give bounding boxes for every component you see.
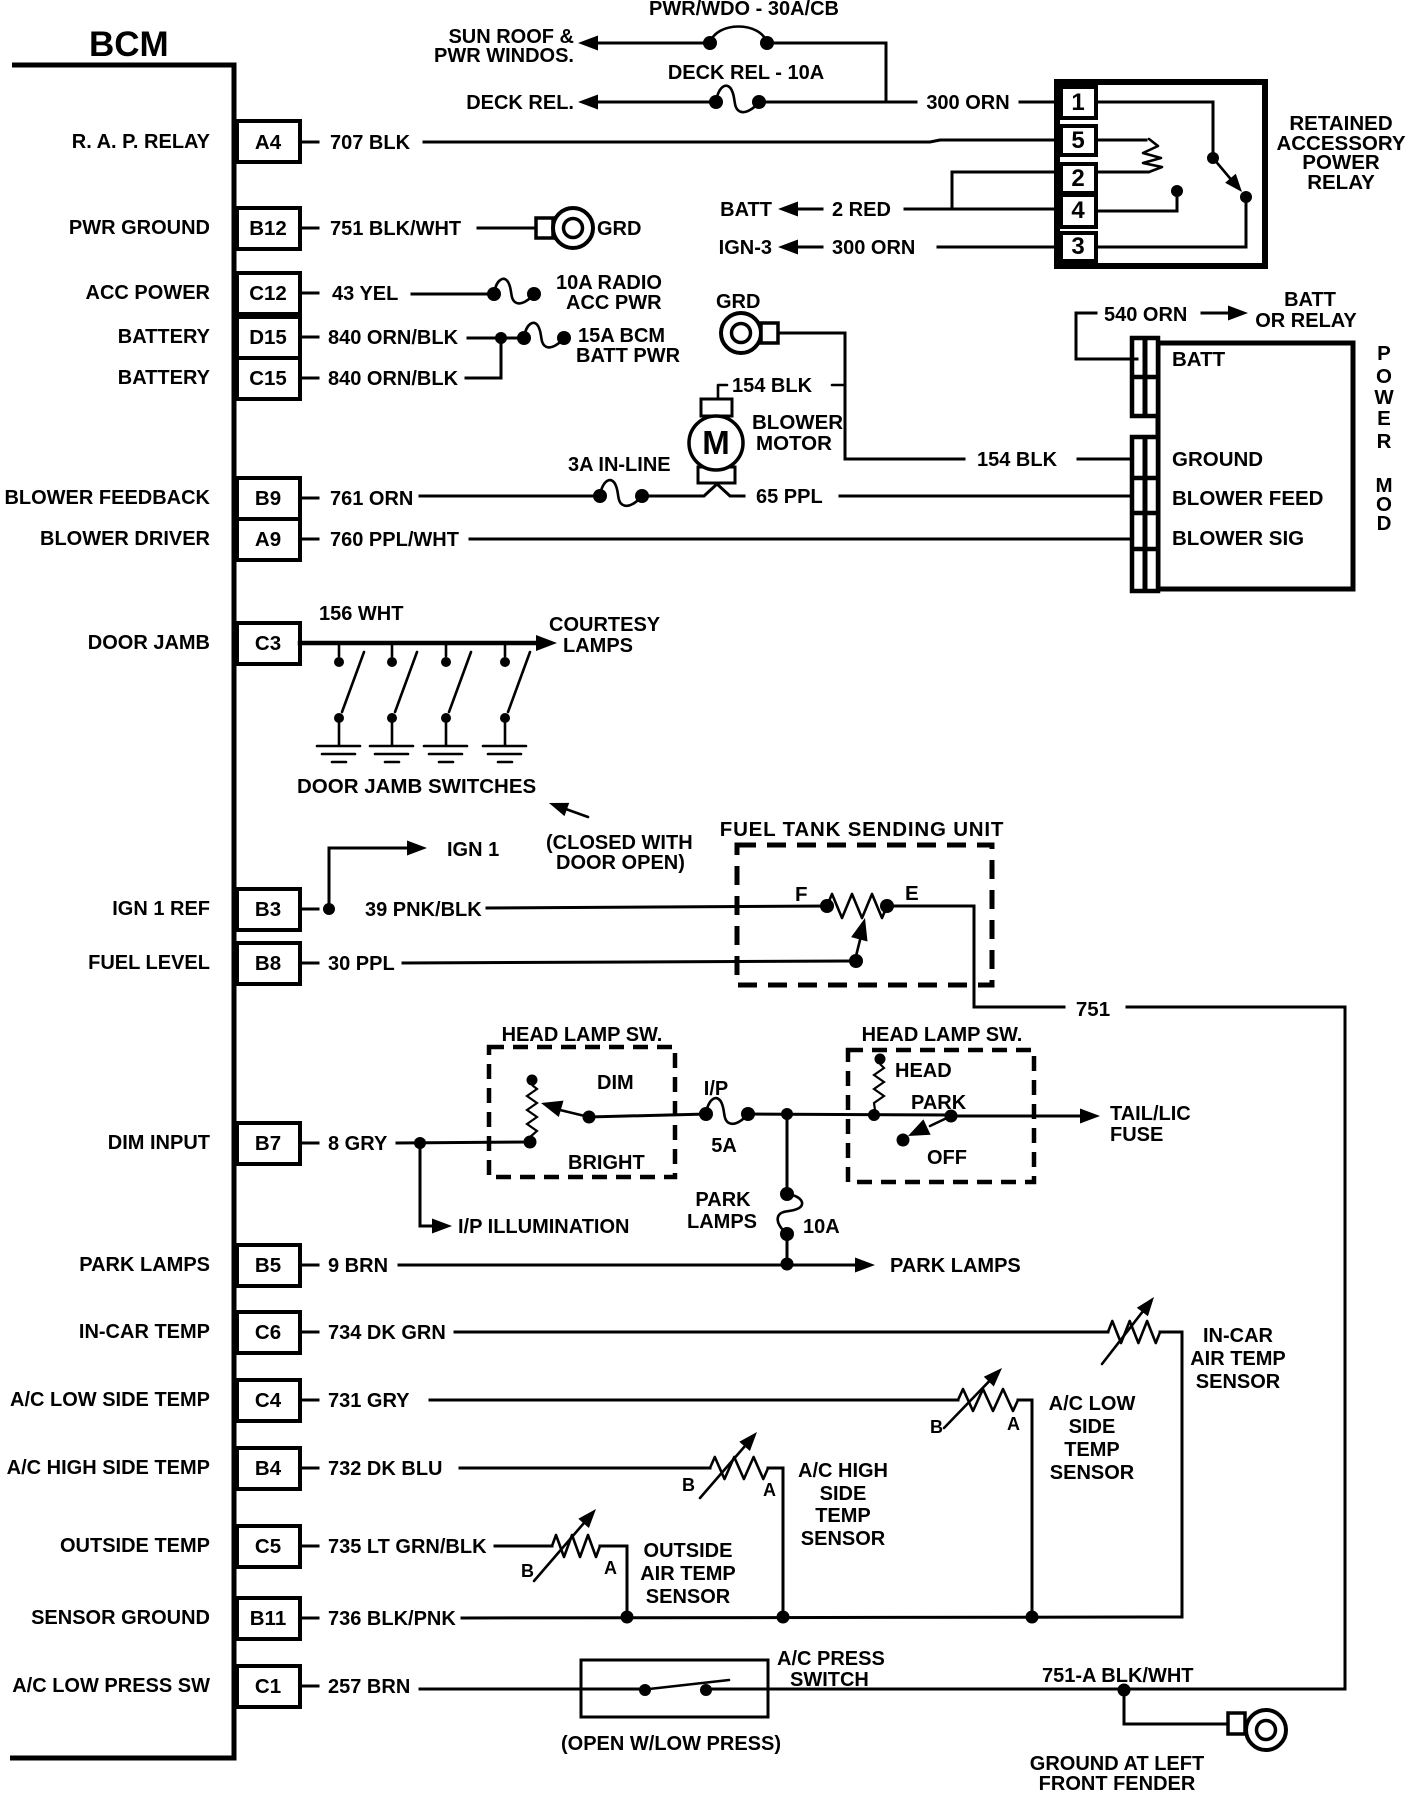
relay pin 4	[1061, 195, 1096, 227]
svg-text:5A: 5A	[711, 1135, 737, 1157]
wire 154 BLK to power module GROUND	[845, 458, 1137, 461]
head rheostat top dot	[875, 1054, 886, 1065]
power module pin labels	[1172, 348, 1323, 550]
svg-text:DIM: DIM	[597, 1072, 634, 1094]
connector pin B9 (BLOWER FEEDBACK)	[4, 478, 318, 519]
label POWER MOD (vertical)	[1374, 342, 1394, 535]
svg-text:734 DK GRN: 734 DK GRN	[328, 1322, 446, 1344]
label BATT OR RELAY	[1255, 289, 1357, 332]
arrow to door jamb switches note	[549, 803, 588, 817]
junction on 39 PNK/BLK at B3	[323, 903, 335, 915]
junction D15/C15	[495, 332, 507, 344]
head position rheostat	[874, 1064, 884, 1110]
connector pin D15 (BATTERY)	[118, 317, 318, 358]
svg-text:B8: B8	[255, 952, 281, 975]
connector pin C12 (ACC POWER)	[86, 273, 318, 314]
svg-text:4: 4	[1071, 197, 1085, 224]
arrow to IGN-3	[778, 240, 822, 255]
svg-text:731 GRY: 731 GRY	[328, 1390, 410, 1412]
label COURTESY LAMPS	[549, 614, 661, 657]
arrow 540 ORN to BATT OR RELAY	[1202, 306, 1248, 321]
a/c high side temp sensor resistor	[700, 1432, 768, 1498]
junction sensor ground (outside)	[621, 1611, 634, 1624]
svg-text:AIR TEMP: AIR TEMP	[1190, 1348, 1286, 1370]
svg-text:SENSOR: SENSOR	[1050, 1462, 1135, 1484]
blower motor top terminal + 154 BLK label leader	[718, 385, 845, 400]
relay contact (pin 3)	[1240, 191, 1252, 203]
svg-text:BLOWER: BLOWER	[752, 411, 843, 434]
svg-text:IGN-3: IGN-3	[719, 237, 772, 259]
wire dimmer to I/P fuse	[589, 1114, 706, 1117]
svg-text:300 ORN: 300 ORN	[926, 92, 1009, 114]
relay switch common contact	[1207, 152, 1219, 164]
label BLOWER MOTOR	[752, 411, 843, 455]
svg-text:OUTSIDE: OUTSIDE	[644, 1540, 733, 1562]
wire 731 GRY to a/c low sensor	[430, 1399, 958, 1402]
svg-text:154 BLK: 154 BLK	[977, 449, 1058, 471]
connector pin A4 (R. A. P. RELAY)	[72, 121, 318, 162]
svg-text:HEAD LAMP SW.: HEAD LAMP SW.	[862, 1024, 1023, 1046]
wire fuse to 9 BRN wire	[786, 1234, 789, 1264]
svg-text:BLOWER FEED: BLOWER FEED	[1172, 487, 1323, 510]
svg-text:DIM INPUT: DIM INPUT	[108, 1132, 210, 1154]
junction to park lamps fuse	[781, 1108, 793, 1120]
wire to I/P ILLUMINATION with arrow	[420, 1143, 452, 1234]
wire 39 PNK/BLK to fuel sender F	[487, 906, 827, 908]
svg-text:AIR TEMP: AIR TEMP	[640, 1563, 736, 1585]
power module connector (ground/blower)	[1132, 437, 1158, 591]
wire 761 ORN to 3A in-line fuse	[420, 495, 600, 498]
svg-text:A/C LOW SIDE TEMP: A/C LOW SIDE TEMP	[10, 1389, 210, 1411]
svg-text:A/C PRESS: A/C PRESS	[777, 1648, 885, 1670]
svg-text:FUEL LEVEL: FUEL LEVEL	[88, 952, 210, 974]
a/c low side temp sensor resistor	[944, 1368, 1018, 1428]
svg-text:D: D	[1377, 512, 1392, 535]
park switch arm	[908, 1116, 951, 1136]
svg-text:A/C HIGH SIDE TEMP: A/C HIGH SIDE TEMP	[7, 1457, 210, 1479]
connector pin C5 (OUTSIDE TEMP)	[60, 1526, 318, 1567]
relay internal wire pin 5 to coil	[1096, 139, 1146, 142]
label RETAINED ACCESSORY POWER RELAY	[1276, 112, 1405, 194]
head lamp switch 2 dashed box	[848, 1050, 1034, 1182]
connector pin C4 (A/C LOW SIDE TEMP)	[10, 1380, 318, 1421]
fuse PARK LAMPS 10A	[778, 1194, 802, 1234]
BCM module boundary	[10, 65, 234, 1758]
press switch left contact	[639, 1684, 651, 1696]
connector pin B8 (FUEL LEVEL)	[88, 943, 318, 984]
svg-text:OFF: OFF	[927, 1147, 967, 1169]
dimmer rheostat bottom dot	[524, 1136, 537, 1149]
svg-text:PWR/WDO - 30A/CB: PWR/WDO - 30A/CB	[649, 0, 839, 20]
fuel tank sending unit dashed box	[737, 845, 992, 985]
wire from fuel sender E to 751 run	[892, 906, 1064, 1007]
svg-text:SENSOR: SENSOR	[1196, 1371, 1281, 1393]
svg-text:B4: B4	[255, 1457, 282, 1480]
label A/C PRESS SWITCH	[777, 1648, 885, 1691]
svg-text:E: E	[1377, 407, 1391, 430]
svg-text:DOOR OPEN): DOOR OPEN)	[556, 852, 685, 874]
power module box	[1133, 341, 1353, 591]
arrow to BATT	[778, 202, 822, 217]
label A/C HIGH SIDE TEMP SENSOR	[798, 1460, 888, 1550]
svg-text:SIDE: SIDE	[1069, 1416, 1116, 1438]
ground symbol (switch 4)	[483, 746, 526, 762]
fuel sender wiper dot	[849, 954, 863, 968]
connector pin A9 (BLOWER DRIVER)	[40, 519, 318, 560]
svg-text:ACC POWER: ACC POWER	[86, 282, 211, 304]
wire a/c low sensor to sensor ground	[1018, 1400, 1032, 1617]
dimmer wiper arm	[541, 1101, 589, 1117]
svg-text:SENSOR: SENSOR	[801, 1528, 886, 1550]
svg-text:MOTOR: MOTOR	[756, 432, 832, 455]
connector pin C6 (IN-CAR TEMP)	[79, 1312, 318, 1353]
svg-text:39 PNK/BLK: 39 PNK/BLK	[365, 899, 482, 921]
wire 65 PPL to power module BLOWER FEED	[840, 495, 1137, 498]
svg-text:540 ORN: 540 ORN	[1104, 304, 1187, 326]
junction sensor ground (a/c low)	[1026, 1611, 1039, 1624]
wire 257 BRN to press switch	[420, 1688, 648, 1691]
svg-text:9 BRN: 9 BRN	[328, 1255, 388, 1277]
svg-text:C3: C3	[255, 632, 281, 655]
label OUTSIDE AIR TEMP SENSOR	[640, 1540, 736, 1608]
relay RETAINED ACCESSORY POWER RELAY box	[1057, 82, 1265, 266]
svg-text:BATTERY: BATTERY	[118, 367, 211, 389]
door jamb switch 2	[387, 645, 417, 745]
svg-text:B9: B9	[255, 487, 281, 510]
wire to SUN ROOF with arrow	[578, 36, 704, 51]
svg-text:C4: C4	[255, 1389, 282, 1412]
svg-text:P: P	[1377, 342, 1391, 365]
wire 300 ORN into relay pin 1	[765, 101, 1061, 104]
label TAIL/LIC FUSE	[1110, 1103, 1191, 1146]
junction 8 GRY	[414, 1137, 426, 1149]
junction 751-A	[1118, 1684, 1131, 1697]
wire 736 BLK/PNK sensor ground bus	[462, 1617, 1182, 1618]
svg-text:A/C LOW PRESS SW: A/C LOW PRESS SW	[12, 1675, 210, 1697]
svg-text:TEMP: TEMP	[1064, 1439, 1120, 1461]
svg-text:8 GRY: 8 GRY	[328, 1133, 388, 1155]
relay pin 5	[1061, 126, 1096, 155]
svg-text:PWR WINDOS.: PWR WINDOS.	[434, 45, 574, 67]
svg-text:B3: B3	[255, 898, 281, 921]
svg-text:(OPEN W/LOW PRESS): (OPEN W/LOW PRESS)	[561, 1733, 781, 1755]
circuit breaker PWR/WDO 30A symbol	[703, 27, 774, 51]
wire press switch to 751 junction	[706, 1688, 1345, 1691]
fuel sender terminal E dot	[880, 899, 894, 913]
svg-text:R. A. P. RELAY: R. A. P. RELAY	[72, 131, 211, 153]
svg-text:C15: C15	[249, 367, 287, 390]
wire 732 DK BLU to a/c high sensor	[460, 1467, 710, 1470]
label GROUND AT LEFT FRONT FENDER	[1030, 1753, 1204, 1795]
svg-text:DECK REL - 10A: DECK REL - 10A	[668, 62, 824, 84]
door jamb switch 1	[334, 645, 364, 745]
svg-text:BLOWER DRIVER: BLOWER DRIVER	[40, 528, 211, 550]
ground ring terminal GRD (blower)	[721, 313, 778, 353]
svg-text:SENSOR GROUND: SENSOR GROUND	[31, 1607, 210, 1629]
outside air temp sensor resistor	[534, 1509, 600, 1581]
relay internal wire pin 2 to coil	[1096, 171, 1148, 174]
fuse 10A RADIO ACC PWR	[494, 279, 534, 303]
svg-text:DECK REL.: DECK REL.	[466, 92, 574, 114]
svg-text:B5: B5	[255, 1254, 281, 1277]
svg-text:F: F	[795, 883, 808, 906]
svg-text:LAMPS: LAMPS	[687, 1211, 757, 1233]
svg-text:BATT: BATT	[720, 199, 772, 221]
connector pin C1 (A/C LOW PRESS SW)	[12, 1666, 318, 1707]
label A/C LOW SIDE TEMP SENSOR	[1049, 1393, 1136, 1484]
wire 840 ORN/BLK (D15) to fuse	[468, 337, 524, 340]
svg-text:HEAD: HEAD	[895, 1060, 952, 1082]
wire outside sensor to sensor ground	[600, 1546, 627, 1617]
svg-text:43 YEL: 43 YEL	[332, 283, 398, 305]
svg-text:10A RADIO: 10A RADIO	[556, 272, 662, 294]
svg-text:C12: C12	[249, 282, 287, 305]
wire 540 ORN bracket into BATT	[1076, 313, 1137, 359]
park switch off dot	[897, 1134, 910, 1147]
press switch arm	[649, 1680, 729, 1689]
ground ring terminal (left front fender)	[1228, 1710, 1286, 1750]
svg-text:IN-CAR TEMP: IN-CAR TEMP	[79, 1321, 210, 1343]
door jamb switch 4	[500, 645, 530, 745]
svg-text:751-A BLK/WHT: 751-A BLK/WHT	[1042, 1665, 1193, 1687]
svg-text:761 ORN: 761 ORN	[330, 488, 413, 510]
svg-text:PARK: PARK	[695, 1189, 751, 1211]
svg-text:C6: C6	[255, 1321, 281, 1344]
svg-text:OR RELAY: OR RELAY	[1255, 310, 1357, 332]
svg-text:A9: A9	[255, 528, 281, 551]
svg-text:C5: C5	[255, 1535, 281, 1558]
wire 707 BLK from pin A4 to relay pin 5	[424, 140, 1061, 142]
svg-text:BLOWER SIG: BLOWER SIG	[1172, 527, 1304, 550]
svg-text:BATT: BATT	[1284, 289, 1336, 311]
svg-text:FRONT FENDER: FRONT FENDER	[1039, 1773, 1196, 1795]
svg-text:SIDE: SIDE	[820, 1483, 867, 1505]
connector pin B4 (A/C HIGH SIDE TEMP)	[7, 1448, 318, 1489]
head lamp switch 1 dashed box	[489, 1047, 675, 1177]
svg-text:A: A	[604, 1558, 617, 1578]
wire 9 BRN to park lamps	[399, 1258, 875, 1273]
svg-text:840 ORN/BLK: 840 ORN/BLK	[328, 327, 459, 349]
svg-text:300 ORN: 300 ORN	[832, 237, 915, 259]
svg-text:D15: D15	[249, 326, 287, 349]
wire branch from 2 RED to relay pin 2	[952, 172, 1061, 209]
label (CLOSED WITH DOOR OPEN)	[546, 832, 693, 874]
svg-text:BATT: BATT	[1172, 348, 1226, 371]
svg-text:257 BRN: 257 BRN	[328, 1676, 410, 1698]
wire 8 GRY to dimmer	[397, 1142, 528, 1143]
label 15A BCM BATT PWR	[576, 325, 681, 367]
svg-text:I/P: I/P	[704, 1078, 728, 1100]
a/c press switch box	[581, 1660, 768, 1717]
wire to DECK REL with arrow	[578, 95, 710, 110]
relay internal wire pin 1 to switch contact	[1096, 102, 1213, 153]
svg-text:TEMP: TEMP	[815, 1505, 871, 1527]
fuse 3A IN-LINE	[600, 480, 642, 506]
head rheostat bottom dot	[868, 1109, 880, 1121]
wire to fender ground ring	[1124, 1690, 1230, 1724]
in-car air temp sensor resistor	[1102, 1297, 1160, 1364]
ground ring terminal GRD (B12)	[536, 208, 593, 248]
wire from fuse under blower motor (65 PPL)	[647, 484, 744, 496]
svg-text:840 ORN/BLK: 840 ORN/BLK	[328, 368, 459, 390]
svg-text:C1: C1	[255, 1675, 281, 1698]
svg-text:A: A	[763, 1480, 776, 1500]
svg-text:GROUND: GROUND	[1172, 448, 1263, 471]
wire a/c high sensor to sensor ground	[768, 1468, 783, 1617]
svg-text:2 RED: 2 RED	[832, 199, 891, 221]
svg-text:751: 751	[1076, 998, 1110, 1021]
svg-text:3: 3	[1071, 233, 1084, 260]
svg-text:PARK: PARK	[911, 1092, 967, 1114]
ground symbol (switch 3)	[424, 746, 467, 762]
svg-text:156 WHT: 156 WHT	[319, 603, 403, 625]
svg-text:732 DK BLU: 732 DK BLU	[328, 1458, 442, 1480]
relay pin 1	[1061, 87, 1096, 118]
svg-text:PARK LAMPS: PARK LAMPS	[79, 1254, 210, 1276]
dimmer rheostat	[527, 1085, 537, 1137]
svg-text:IGN 1 REF: IGN 1 REF	[112, 898, 210, 920]
svg-text:IN-CAR: IN-CAR	[1203, 1325, 1274, 1347]
fuel sender resistor	[827, 894, 887, 918]
svg-text:30 PPL: 30 PPL	[328, 953, 395, 975]
connector pin B12 (PWR GROUND)	[69, 208, 318, 249]
svg-text:DOOR JAMB SWITCHES: DOOR JAMB SWITCHES	[297, 775, 536, 798]
relay pin 2	[1061, 164, 1096, 193]
wire 43 YEL to fuse	[412, 293, 494, 296]
svg-text:5: 5	[1071, 127, 1084, 154]
junction 9 BRN / fuse	[781, 1258, 794, 1271]
wire I/P fuse to head lamp switch 2	[748, 1114, 951, 1115]
wire 2 RED to relay pin 4	[905, 208, 1061, 211]
svg-text:OUTSIDE TEMP: OUTSIDE TEMP	[60, 1535, 210, 1557]
svg-text:COURTESY: COURTESY	[549, 614, 661, 636]
fuse I/P 5A	[706, 1098, 748, 1124]
blower motor M	[689, 399, 743, 483]
connector pin C15 (BATTERY)	[118, 358, 318, 399]
wire IGN 1 branch from B3	[329, 841, 427, 910]
fuse 15A BCM BATT PWR	[524, 323, 564, 347]
wire in-car sensor to sensor ground	[1160, 1332, 1182, 1617]
relay coil	[1143, 139, 1162, 172]
svg-text:R: R	[1377, 430, 1392, 453]
relay contact (pin 4)	[1171, 185, 1183, 197]
svg-text:W: W	[1374, 386, 1394, 409]
wire from blower GRD ring down to 154 BLK	[778, 333, 845, 459]
relay internal wire pin 4 to contact	[1096, 196, 1177, 211]
dimmer rheostat top dot	[527, 1075, 538, 1086]
svg-text:BLOWER FEEDBACK: BLOWER FEEDBACK	[4, 487, 210, 509]
ground symbol (switch 1)	[317, 746, 360, 762]
svg-text:154 BLK: 154 BLK	[732, 375, 813, 397]
label IN-CAR AIR TEMP SENSOR	[1190, 1325, 1286, 1393]
wire to TAIL/LIC fuse with arrow	[951, 1109, 1100, 1124]
relay switch arm	[1213, 158, 1242, 192]
svg-text:HEAD LAMP SW.: HEAD LAMP SW.	[502, 1024, 663, 1046]
svg-text:LAMPS: LAMPS	[563, 635, 633, 657]
label PARK LAMPS (fuse)	[687, 1189, 757, 1233]
svg-text:B: B	[930, 1417, 943, 1437]
connector pin B7 (DIM INPUT)	[108, 1123, 318, 1164]
svg-text:(CLOSED WITH: (CLOSED WITH	[546, 832, 693, 854]
connector pin B5 (PARK LAMPS)	[79, 1245, 318, 1286]
svg-text:2: 2	[1071, 165, 1084, 192]
connector pin C3 (DOOR JAMB)	[88, 623, 318, 664]
svg-text:15A BCM: 15A BCM	[578, 325, 665, 347]
svg-text:760 PPL/WHT: 760 PPL/WHT	[330, 529, 459, 551]
wire junction down to park lamps fuse	[786, 1114, 789, 1194]
svg-text:B: B	[682, 1475, 695, 1495]
svg-text:FUEL TANK SENDING UNIT: FUEL TANK SENDING UNIT	[720, 818, 1004, 841]
wire 300 ORN to relay pin 3	[938, 246, 1061, 249]
svg-text:BRIGHT: BRIGHT	[568, 1152, 645, 1174]
svg-text:I/P ILLUMINATION: I/P ILLUMINATION	[458, 1216, 629, 1238]
svg-text:IGN 1: IGN 1	[447, 839, 499, 861]
svg-text:PARK LAMPS: PARK LAMPS	[890, 1255, 1021, 1277]
svg-text:BATT PWR: BATT PWR	[576, 345, 681, 367]
svg-text:B11: B11	[250, 1607, 286, 1630]
svg-text:ACC PWR: ACC PWR	[566, 292, 662, 314]
svg-text:SENSOR: SENSOR	[646, 1586, 731, 1608]
svg-text:TAIL/LIC: TAIL/LIC	[1110, 1103, 1191, 1125]
svg-text:BATTERY: BATTERY	[118, 326, 211, 348]
svg-text:1: 1	[1071, 89, 1084, 116]
svg-text:RELAY: RELAY	[1307, 171, 1375, 194]
wire from CB right to relay feed (down to deck rel wire)	[773, 43, 886, 101]
svg-text:707 BLK: 707 BLK	[330, 132, 411, 154]
svg-text:O: O	[1376, 365, 1392, 388]
svg-text:B12: B12	[249, 217, 287, 240]
door jamb switch 3	[441, 645, 471, 745]
ground symbol (switch 2)	[370, 746, 413, 762]
connector pin B11 (SENSOR GROUND)	[31, 1598, 318, 1639]
svg-text:GRD: GRD	[597, 218, 641, 240]
svg-text:751 BLK/WHT: 751 BLK/WHT	[330, 218, 461, 240]
relay pin 3	[1061, 233, 1096, 261]
svg-text:735 LT GRN/BLK: 735 LT GRN/BLK	[328, 1536, 487, 1558]
svg-text:GROUND AT LEFT: GROUND AT LEFT	[1030, 1753, 1204, 1775]
svg-text:A: A	[1007, 1414, 1020, 1434]
label 10A RADIO ACC PWR	[556, 272, 662, 314]
svg-text:M: M	[702, 424, 730, 461]
dimmer wiper pivot dot	[583, 1111, 596, 1124]
svg-text:DOOR JAMB: DOOR JAMB	[88, 632, 210, 654]
wire 735 LT GRN/BLK to outside sensor	[495, 1545, 552, 1548]
wire 30 PPL to fuel sender wiper	[403, 961, 851, 963]
svg-text:GRD: GRD	[716, 291, 760, 313]
svg-text:FUSE: FUSE	[1110, 1124, 1163, 1146]
relay internal wire pin 3 to contact	[1096, 202, 1246, 247]
fuel sender wiper arrow	[851, 918, 867, 956]
svg-text:A4: A4	[255, 131, 282, 154]
wire 156 WHT courtesy lamps feed	[300, 635, 557, 651]
svg-text:B: B	[521, 1561, 534, 1581]
svg-text:BCM: BCM	[89, 25, 169, 64]
wire 751 BLK/WHT to ground ring	[478, 227, 540, 230]
svg-text:PWR GROUND: PWR GROUND	[69, 217, 210, 239]
wire 734 DK GRN to in-car sensor	[455, 1331, 1108, 1334]
fuse DECK REL 10A symbol	[716, 86, 759, 112]
svg-text:10A: 10A	[803, 1216, 840, 1238]
press switch right contact	[700, 1684, 712, 1696]
power module connector (BATT)	[1132, 338, 1158, 416]
wire 840 ORN/BLK (C15) joining D15	[466, 338, 501, 378]
svg-text:A/C LOW: A/C LOW	[1049, 1393, 1136, 1415]
wire 751 down right side	[1127, 1007, 1345, 1689]
park switch pivot dot	[945, 1110, 958, 1123]
svg-text:3A IN-LINE: 3A IN-LINE	[568, 454, 671, 476]
wire 760 PPL/WHT to power module BLOWER SIG	[470, 538, 1137, 541]
svg-text:65 PPL: 65 PPL	[756, 486, 823, 508]
